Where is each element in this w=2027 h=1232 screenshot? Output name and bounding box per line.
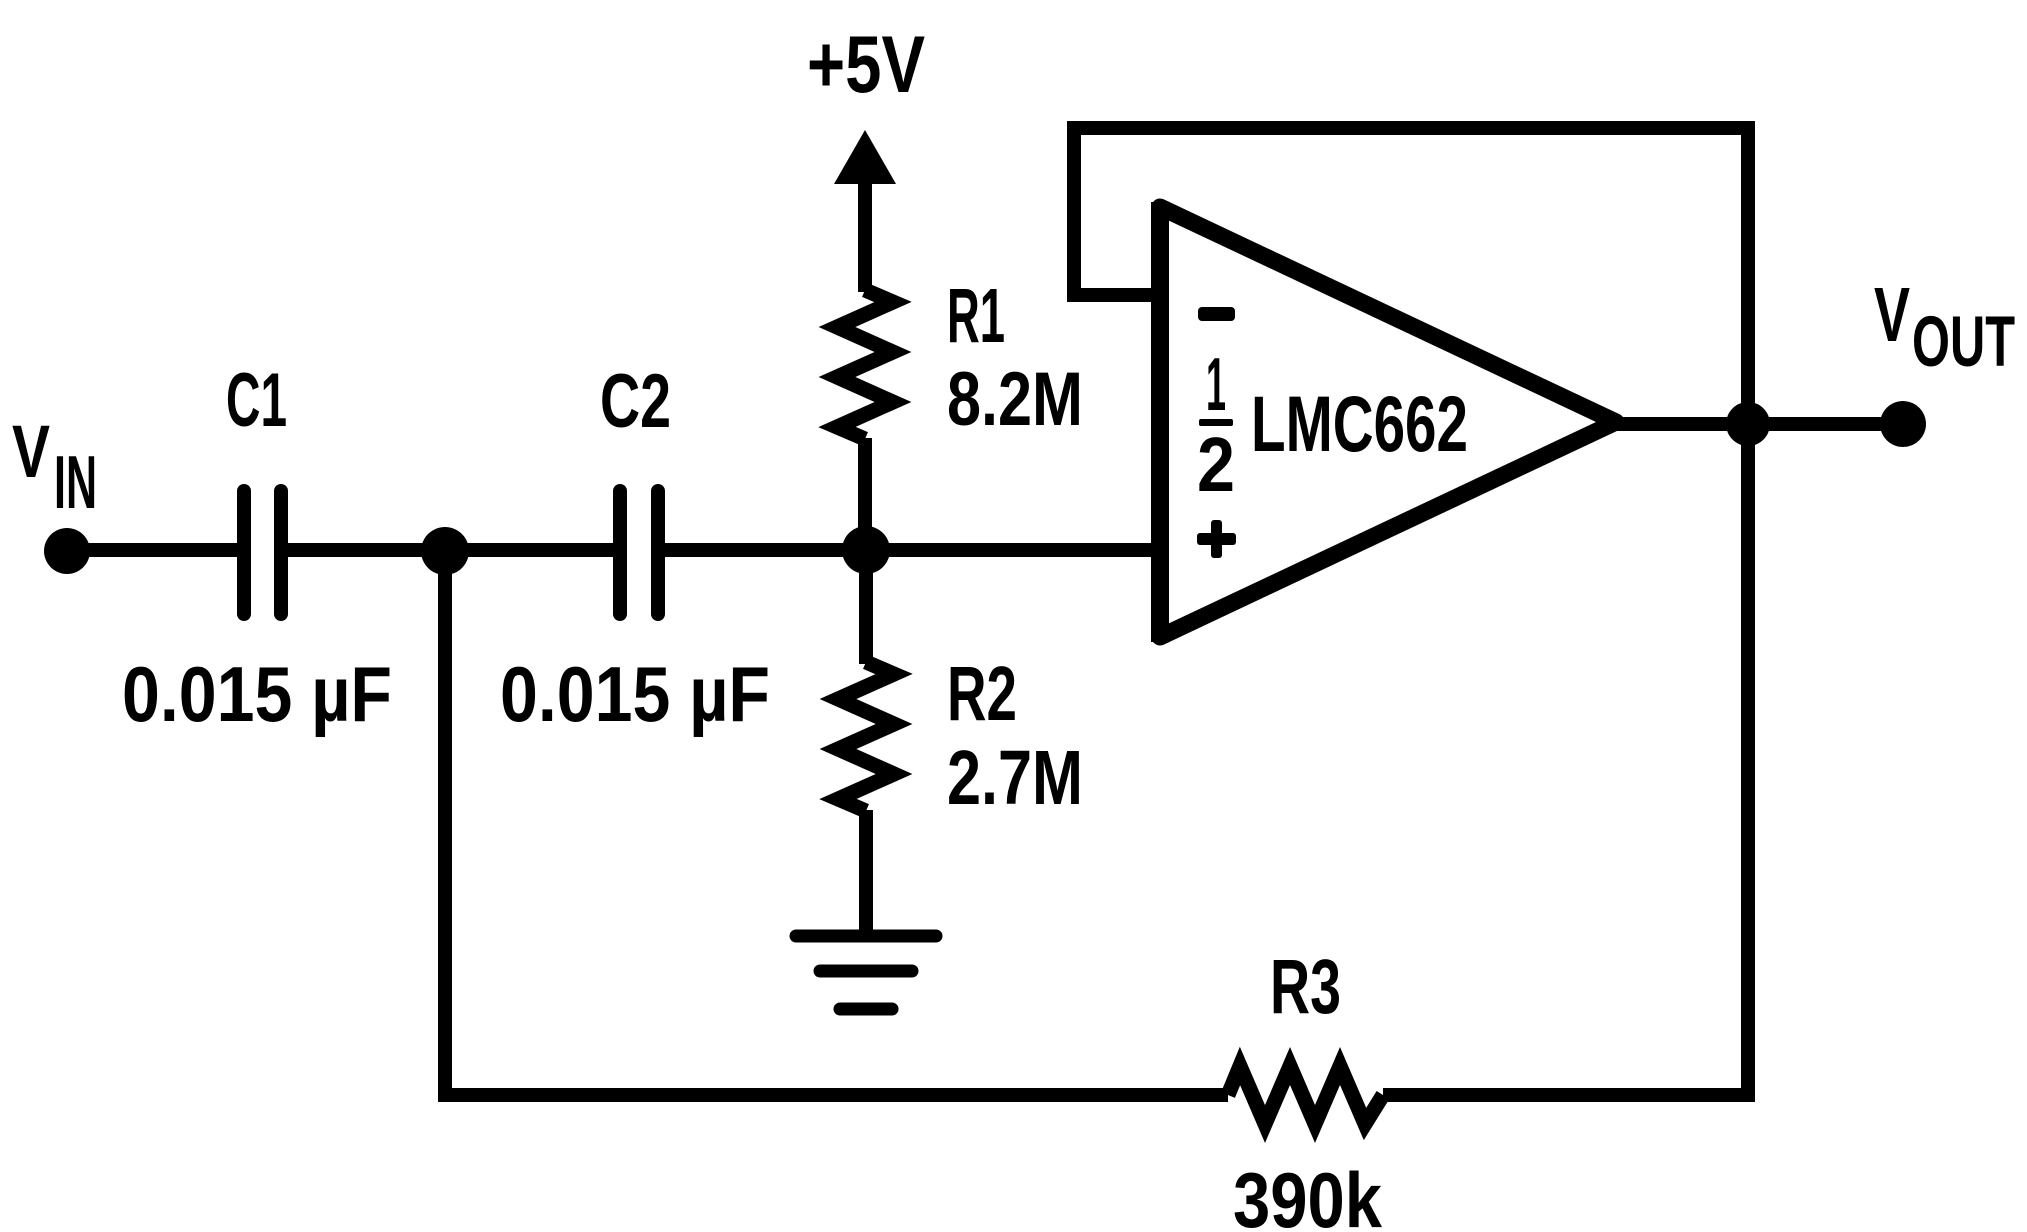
svg-text:1: 1 (1206, 342, 1226, 426)
svg-text:C1: C1 (226, 358, 287, 443)
svg-text:OUT: OUT (1912, 303, 2015, 382)
svg-text:R1: R1 (947, 273, 1005, 359)
svg-text:0.015 µF: 0.015 µF (500, 650, 770, 738)
svg-text:2.7M: 2.7M (947, 735, 1083, 821)
svg-text:IN: IN (54, 440, 97, 524)
svg-text:2: 2 (1197, 422, 1235, 508)
svg-text:C2: C2 (600, 359, 671, 444)
svg-text:V: V (1874, 272, 1910, 358)
svg-text:0.015 µF: 0.015 µF (122, 650, 392, 738)
svg-text:+5V: +5V (807, 20, 925, 110)
svg-text:R3: R3 (1270, 944, 1341, 1030)
svg-text:V: V (12, 410, 50, 493)
svg-text:LMC662: LMC662 (1251, 379, 1468, 468)
svg-text:R2: R2 (947, 651, 1017, 737)
svg-text:390k: 390k (1233, 1156, 1383, 1232)
svg-text:8.2M: 8.2M (947, 357, 1083, 442)
